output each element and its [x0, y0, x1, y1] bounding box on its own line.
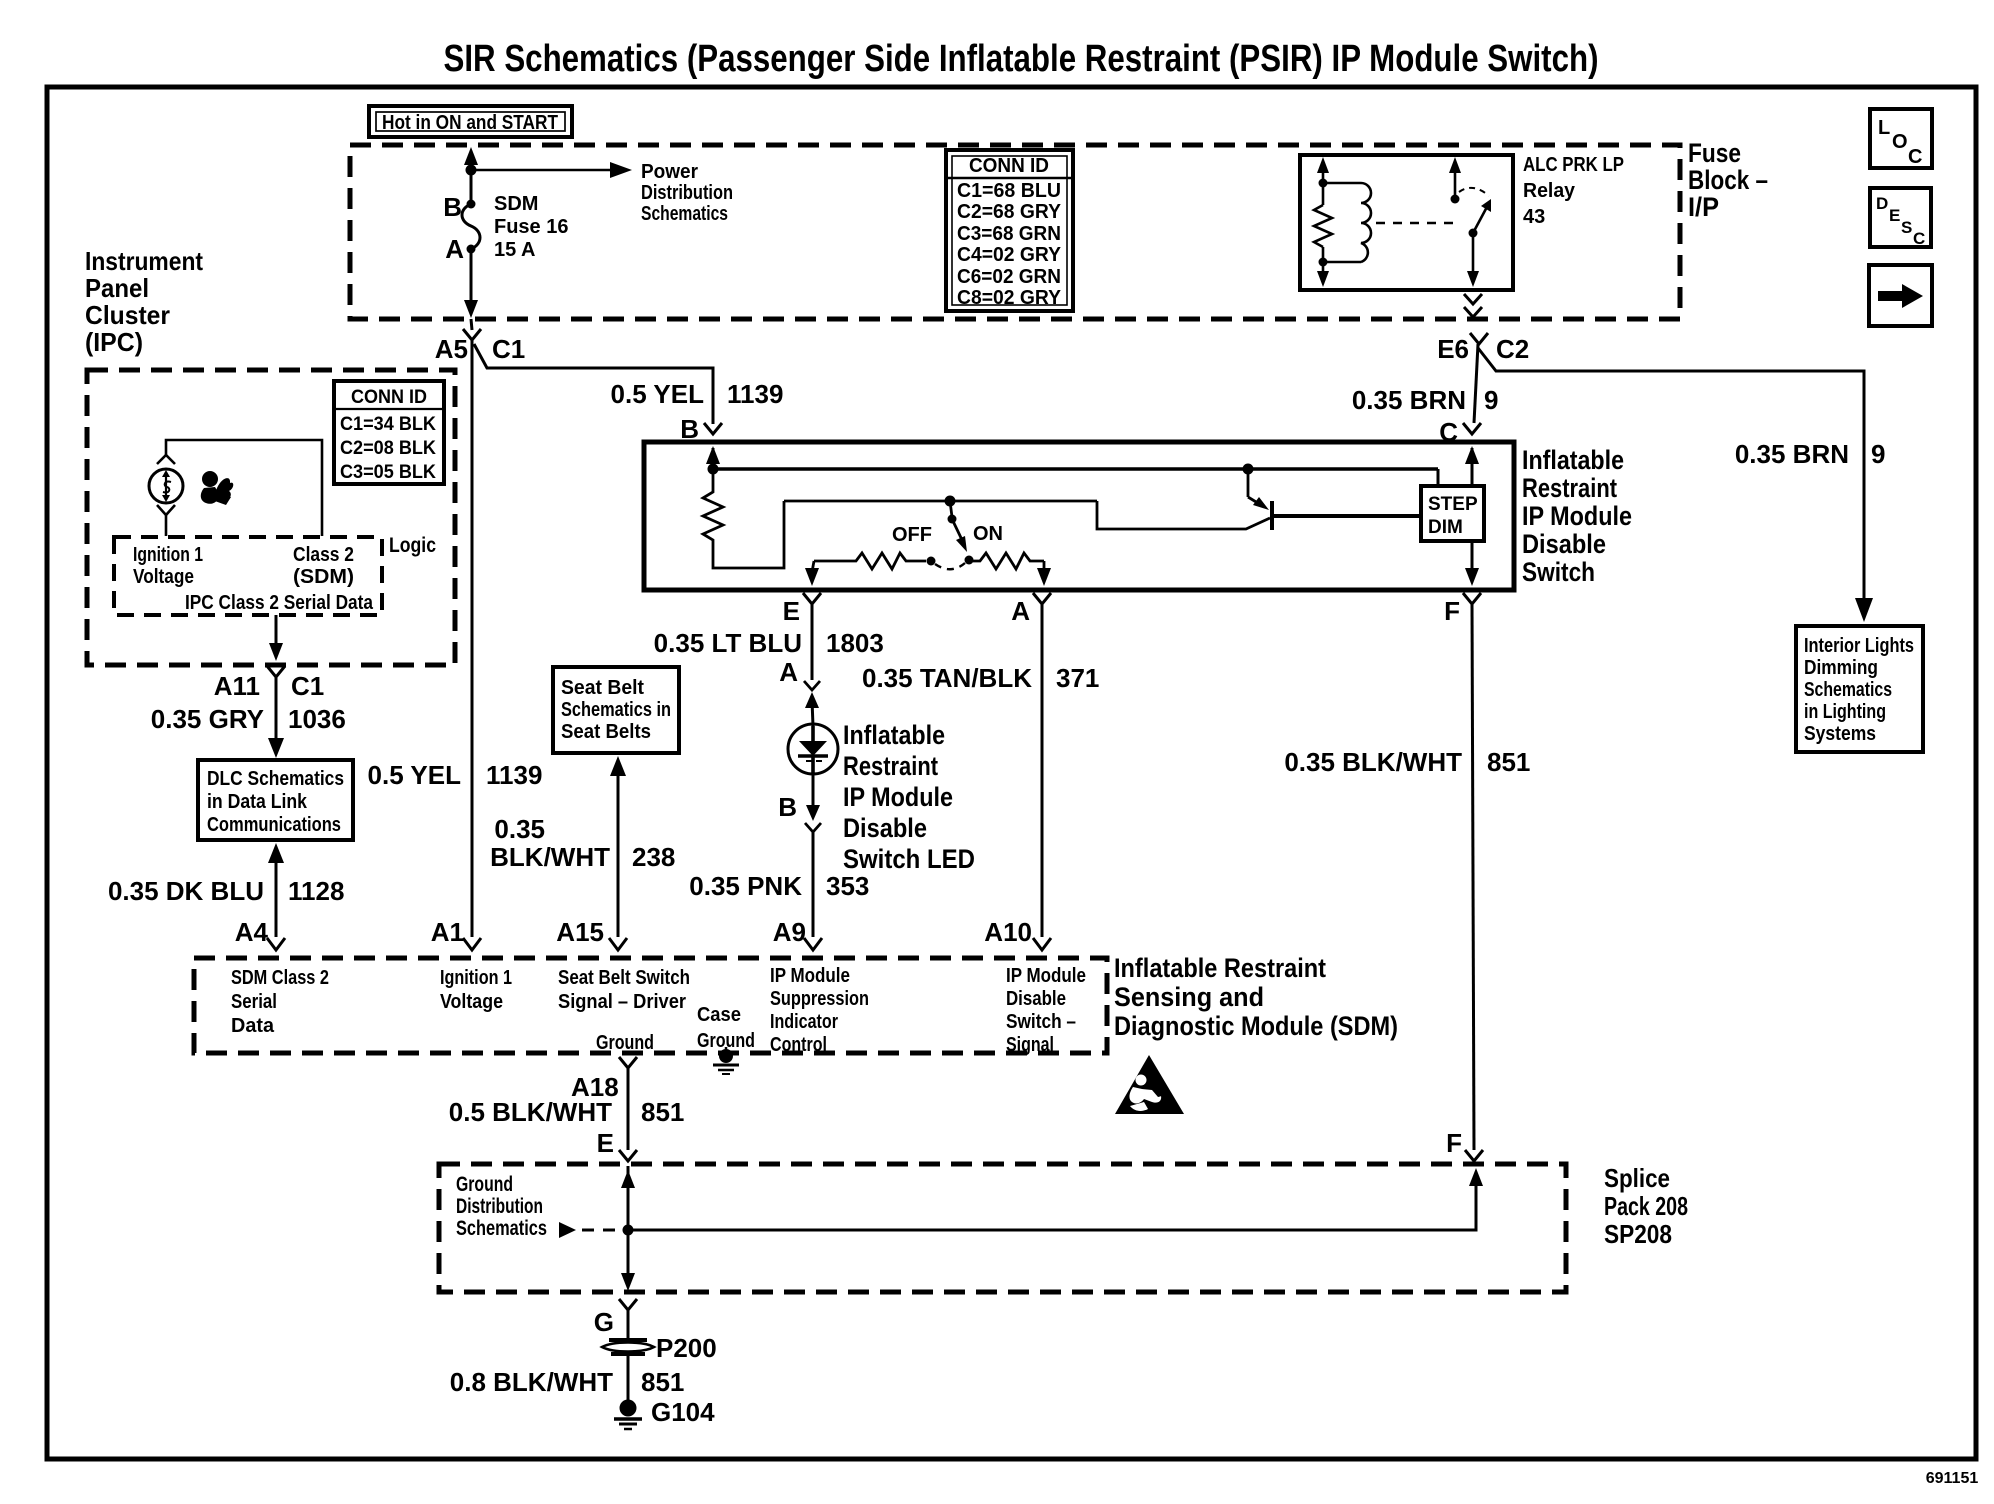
svg-text:0.35 BRN: 0.35 BRN — [1735, 439, 1849, 469]
wire power distribution branch — [471, 169, 614, 172]
arrow down LED cathode — [806, 805, 820, 821]
wire top rail to STEP DIM — [1437, 469, 1440, 486]
svg-text:0.35 GRY: 0.35 GRY — [151, 704, 264, 734]
svg-text:C3=68 GRN: C3=68 GRN — [957, 223, 1061, 245]
svg-text:0.5 BLK/WHT: 0.5 BLK/WHT — [449, 1097, 612, 1127]
svg-text:Instrument: Instrument — [85, 246, 203, 276]
svg-text:0.35 LT BLU: 0.35 LT BLU — [654, 628, 802, 658]
inductor relay coil winding — [1323, 183, 1371, 262]
svg-text:B: B — [778, 792, 797, 822]
label 0.35 LT BLU circuit 1803 — [654, 628, 884, 658]
dashed travel arc — [1459, 188, 1489, 196]
svg-text:STEP: STEP — [1428, 494, 1478, 515]
label IP Module Suppression Indicator Control — [770, 965, 869, 1056]
wire 0.35 BLK/WHT 851 — [1472, 604, 1474, 1150]
svg-text:353: 353 — [826, 871, 869, 901]
arrow down splice to ground — [621, 1273, 635, 1291]
wire dashed to splice junction — [582, 1229, 622, 1232]
svg-text:Restraint: Restraint — [843, 751, 938, 781]
svg-text:0.35 PNK: 0.35 PNK — [689, 871, 802, 901]
svg-text:Inflatable: Inflatable — [1522, 445, 1624, 475]
svg-text:Ignition 1: Ignition 1 — [440, 967, 512, 989]
svg-text:Ground: Ground — [456, 1173, 513, 1196]
label 0.5 YEL circuit 1139 (lower) — [368, 760, 543, 790]
svg-text:C2=68 GRY: C2=68 GRY — [957, 201, 1062, 223]
svg-text:C1=34 BLK: C1=34 BLK — [340, 414, 436, 435]
IPC dashed box — [87, 370, 455, 665]
svg-text:0.35: 0.35 — [494, 814, 545, 844]
svg-text:E: E — [597, 1128, 614, 1158]
LED D1 Inflatable Restraint IP Module Disable Switch LED — [788, 724, 838, 774]
label 0.35 TAN/BLK circuit 371 — [862, 663, 1099, 693]
wire module top rail — [713, 467, 1438, 471]
Hot in ON and START box — [369, 106, 572, 137]
svg-text:851: 851 — [641, 1367, 684, 1397]
svg-text:Schematics in: Schematics in — [561, 699, 671, 721]
svg-text:DIM: DIM — [1428, 517, 1463, 538]
indicator lamp symbol — [149, 469, 183, 503]
connector chevron splice pack F — [1465, 1150, 1483, 1161]
warning triangle airbag icon — [1115, 1055, 1184, 1114]
connector chevron at module pin C — [1463, 423, 1481, 434]
svg-text:A9: A9 — [773, 917, 806, 947]
label SDM Class 2 Serial Data — [231, 967, 329, 1037]
label Instrument Panel Cluster (IPC) — [85, 246, 203, 357]
svg-text:Fuse: Fuse — [1688, 138, 1741, 168]
svg-text:CONN ID: CONN ID — [969, 155, 1049, 177]
svg-text:Seat Belt Switch: Seat Belt Switch — [558, 967, 690, 989]
wire module C internal — [1471, 448, 1474, 486]
connector caret above lamp — [157, 455, 175, 464]
svg-text:SP208: SP208 — [1604, 1219, 1672, 1249]
svg-text:Ignition 1: Ignition 1 — [133, 544, 203, 566]
connector chevron SDM pin A1 — [463, 938, 481, 950]
arrow up inside module at C — [1465, 446, 1479, 464]
svg-text:A: A — [1011, 596, 1030, 626]
svg-text:C: C — [1913, 229, 1925, 248]
svg-text:Cluster: Cluster — [85, 300, 170, 330]
connector chevron LED pin A — [804, 681, 820, 690]
wire 0.35 TAN/BLK 371 — [1041, 604, 1044, 937]
svg-text:Splice: Splice — [1604, 1163, 1670, 1193]
label Splice Pack 208 SP208 — [1604, 1163, 1688, 1249]
arrow ground distribution pointer — [559, 1222, 576, 1238]
svg-text:9: 9 — [1484, 385, 1498, 415]
wire lamp feed — [166, 440, 322, 536]
connector chevron SDM ground A18 — [619, 1057, 637, 1068]
svg-text:1803: 1803 — [826, 628, 884, 658]
connector P200 pass-through — [602, 1340, 654, 1354]
svg-text:Inflatable: Inflatable — [843, 720, 945, 750]
wire fuse output down — [470, 249, 473, 303]
svg-text:G104: G104 — [651, 1397, 715, 1427]
label 0.35 BLK/WHT circuit 238 — [490, 814, 675, 872]
svg-text:Voltage: Voltage — [133, 566, 194, 588]
svg-text:BLK/WHT: BLK/WHT — [490, 842, 610, 872]
svg-text:(SDM): (SDM) — [293, 566, 354, 588]
wire switch rail — [784, 500, 1097, 503]
label Ground Distribution Schematics — [456, 1173, 547, 1240]
svg-text:Block –: Block – — [1688, 165, 1768, 195]
svg-text:Seat Belt: Seat Belt — [561, 677, 644, 699]
svg-text:IP Module: IP Module — [1522, 501, 1632, 531]
label 0.35 PNK circuit 353 — [689, 871, 869, 901]
svg-text:A11: A11 — [214, 671, 260, 701]
svg-text:0.35 DK BLU: 0.35 DK BLU — [108, 876, 264, 906]
label Power Distribution Schematics — [641, 161, 733, 225]
switch S1 Inflatable Restraint IP Module Disable Switch box — [644, 442, 1514, 590]
wire 0.35 PNK 353 — [812, 832, 815, 937]
svg-text:0.8 BLK/WHT: 0.8 BLK/WHT — [450, 1367, 613, 1397]
svg-text:851: 851 — [641, 1097, 684, 1127]
connector chevron SDM pin A4 — [267, 938, 285, 950]
svg-text:in Data Link: in Data Link — [207, 791, 308, 813]
svg-text:0.35 BLK/WHT: 0.35 BLK/WHT — [1284, 747, 1462, 777]
svg-text:0.35 BRN: 0.35 BRN — [1352, 385, 1466, 415]
label SDM Fuse 16 15 A — [494, 193, 568, 261]
SDM dashed box — [194, 958, 1107, 1053]
relay coil left pin wire — [1322, 161, 1325, 205]
wire ignition feed vertical (fuse 16 branch) — [470, 163, 473, 205]
svg-text:Serial: Serial — [231, 991, 277, 1013]
svg-text:G: G — [594, 1307, 614, 1337]
svg-text:A4: A4 — [235, 917, 269, 947]
relay movable arm — [1473, 205, 1488, 233]
label 0.5 BLK/WHT circuit 851 — [449, 1097, 685, 1127]
svg-text:IPC Class 2 Serial Data: IPC Class 2 Serial Data — [185, 592, 374, 614]
relay fixed contact wire — [1454, 161, 1457, 196]
node junction at power distribution tap — [466, 165, 477, 176]
wire OFF leg down to E — [812, 561, 814, 572]
svg-text:IP Module: IP Module — [1006, 965, 1086, 987]
arrow down relay pin bottom — [1317, 271, 1329, 287]
svg-text:DLC Schematics: DLC Schematics — [207, 768, 344, 790]
svg-text:Switch LED: Switch LED — [843, 844, 975, 874]
switch movable arm — [952, 519, 963, 542]
svg-text:ON: ON — [973, 523, 1003, 545]
wire G to P200 — [627, 1310, 630, 1341]
wire 0.8 BLK/WHT 851 — [627, 1356, 630, 1400]
arrow up LED anode — [805, 692, 819, 708]
arrow up inside splice at E — [621, 1170, 635, 1188]
connector double chevron below relay — [1464, 294, 1482, 317]
svg-text:OFF: OFF — [892, 524, 932, 546]
connector C2 chevron at E6 — [1470, 333, 1488, 344]
wire 0.5 BLK/WHT 851 — [627, 1068, 630, 1150]
svg-text:Inflatable Restraint: Inflatable Restraint — [1114, 953, 1326, 983]
label 0.35 BRN circuit 9 (right) — [1735, 439, 1886, 469]
Seat Belt Schematics reference box — [553, 667, 679, 753]
svg-text:E: E — [783, 596, 800, 626]
svg-text:Schematics: Schematics — [641, 203, 728, 225]
svg-text:Distribution: Distribution — [641, 182, 733, 204]
connector chevron module pin A — [1033, 593, 1051, 604]
connector chevron LED pin B — [805, 823, 821, 832]
connector chevron below lamp — [157, 505, 175, 515]
arrow right to power distribution schematics — [610, 162, 632, 178]
transistor Q1 — [1248, 469, 1421, 530]
wire 0.35 BLK/WHT 238 — [617, 770, 620, 937]
wire 0.35 BRN 9 down to module C — [1474, 344, 1478, 423]
arrow up into seat belt box — [610, 756, 626, 776]
svg-text:Panel: Panel — [85, 273, 149, 303]
svg-text:Switch: Switch — [1522, 557, 1595, 587]
svg-text:851: 851 — [1487, 747, 1530, 777]
node switch pivot — [948, 515, 957, 524]
svg-text:C6=02 GRN: C6=02 GRN — [957, 266, 1061, 288]
svg-text:C2=08 BLK: C2=08 BLK — [340, 438, 436, 459]
label ALC PRK LP Relay 43 — [1523, 154, 1624, 228]
connector chevron G — [619, 1299, 637, 1310]
fuse F16 SDM Fuse 16 15A — [462, 200, 480, 254]
svg-text:1139: 1139 — [727, 379, 783, 409]
svg-text:A10: A10 — [984, 917, 1032, 947]
label Ignition 1 Voltage (IPC) — [133, 544, 203, 588]
label IP Module Disable Switch - Signal — [1006, 965, 1086, 1056]
node relay fixed contact — [1451, 195, 1460, 204]
svg-text:Schematics: Schematics — [456, 1217, 547, 1240]
wire stub fuse A to connector — [471, 319, 472, 330]
svg-text:O: O — [1892, 131, 1908, 153]
arrow up into DLC box bottom — [268, 843, 284, 863]
svg-text:371: 371 — [1056, 663, 1099, 693]
label 0.35 BLK/WHT circuit 851 — [1284, 747, 1530, 777]
svg-text:C1=68 BLU: C1=68 BLU — [957, 180, 1061, 202]
svg-text:C1: C1 — [291, 671, 324, 701]
label Seat Belt Switch Signal - Driver — [558, 967, 690, 1013]
label Inflatable Restraint Sensing and Diagnostic Module (SDM) — [1114, 953, 1398, 1041]
wire ON leg down to A — [1043, 561, 1046, 572]
svg-text:Interior Lights: Interior Lights — [1804, 635, 1914, 657]
svg-text:I/P: I/P — [1688, 192, 1719, 222]
connector chevron module pin F — [1463, 593, 1481, 604]
IPC logic dashed box — [114, 537, 382, 615]
switch common stub — [950, 501, 952, 517]
arrow legend box — [1869, 265, 1932, 326]
svg-text:Dimming: Dimming — [1804, 657, 1878, 679]
wire 0.35 GRY 1036 — [275, 677, 278, 741]
node splice junction — [623, 1225, 634, 1236]
svg-text:IP Module: IP Module — [770, 965, 850, 987]
airbag indicator icon — [201, 471, 233, 505]
svg-text:1139: 1139 — [486, 760, 542, 790]
svg-text:0.5 YEL: 0.5 YEL — [611, 379, 705, 409]
svg-text:F: F — [1444, 596, 1460, 626]
svg-text:238: 238 — [632, 842, 675, 872]
svg-text:CONN ID: CONN ID — [351, 387, 427, 408]
node module top rail junction — [708, 464, 719, 475]
arrow down at module F exit — [1465, 568, 1479, 586]
label Class 2 (SDM) — [293, 544, 354, 588]
svg-text:1036: 1036 — [288, 704, 346, 734]
svg-text:Ground: Ground — [596, 1032, 654, 1054]
node relay arm pivot — [1469, 229, 1478, 238]
svg-text:Signal: Signal — [1006, 1034, 1054, 1056]
arrow up at fuse block top edge — [464, 147, 478, 165]
CONN ID table (IPC) — [334, 381, 444, 484]
LOC legend box — [1870, 109, 1932, 168]
connector chevron module pin E — [803, 593, 821, 604]
svg-text:Hot in ON and START: Hot in ON and START — [382, 112, 558, 134]
arrow up relay contact pin — [1449, 157, 1461, 173]
svg-text:Logic: Logic — [389, 534, 436, 557]
svg-text:L: L — [1878, 117, 1890, 139]
arrow down into DLC box — [268, 738, 284, 758]
svg-text:C: C — [1908, 146, 1922, 168]
svg-text:Signal – Driver: Signal – Driver — [558, 991, 686, 1013]
wire 0.5 YEL 1139 vertical to SDM A1 — [471, 340, 474, 937]
label Inflatable Restraint IP Module Disable Switch LED — [843, 720, 975, 874]
label 0.35 BRN circuit 9 (left) — [1352, 385, 1499, 415]
connector chevron at module pin B — [704, 423, 722, 434]
wire IPC serial data out — [275, 615, 278, 646]
svg-text:(IPC): (IPC) — [85, 327, 143, 357]
resistor relay internal — [1314, 205, 1332, 247]
relay K43 ALC PRK LP Relay box — [1300, 155, 1513, 290]
connector C1 chevron at A11 — [267, 666, 285, 677]
node OFF contact — [927, 557, 936, 566]
svg-text:Relay: Relay — [1523, 180, 1576, 202]
svg-text:Disable: Disable — [1006, 988, 1066, 1010]
svg-text:in Lighting: in Lighting — [1804, 701, 1886, 723]
wire splice E internal — [627, 1166, 630, 1278]
svg-text:F: F — [1446, 1128, 1462, 1158]
label 0.5 YEL circuit 1139 (upper) — [611, 379, 784, 409]
svg-text:Indicator: Indicator — [770, 1011, 838, 1033]
svg-text:A: A — [779, 657, 798, 687]
node switch common junction — [945, 496, 956, 507]
node relay coil bottom — [1319, 258, 1328, 267]
svg-text:Pack 208: Pack 208 — [1604, 1191, 1688, 1221]
arrow down at module A exit — [1037, 568, 1051, 586]
svg-text:9: 9 — [1871, 439, 1885, 469]
svg-text:SDM: SDM — [494, 193, 538, 215]
svg-text:Fuse 16: Fuse 16 — [494, 216, 568, 238]
svg-text:1128: 1128 — [288, 876, 344, 906]
arrow up inside splice at F — [1469, 1168, 1483, 1186]
wire 0.35 LT BLU 1803 — [811, 604, 814, 680]
svg-text:Seat Belts: Seat Belts — [561, 721, 651, 743]
connector C1 chevron at A5 — [463, 329, 481, 340]
arrow up inside module at B — [706, 446, 720, 464]
wire 0.35 BRN 9 branch to interior lights — [1478, 348, 1864, 600]
dashed contact arc — [935, 563, 965, 569]
DESC legend box — [1870, 188, 1931, 248]
wire 0.5 YEL branch to module pin B — [474, 344, 713, 424]
svg-text:Systems: Systems — [1804, 723, 1876, 745]
CONN ID table (fuse block) — [946, 150, 1073, 311]
connector chevron SDM pin A9 — [804, 938, 822, 950]
svg-text:E6: E6 — [1437, 334, 1469, 364]
svg-text:B: B — [680, 414, 699, 444]
svg-text:C4=02 GRY: C4=02 GRY — [957, 244, 1062, 266]
wire transistor feed step — [1097, 501, 1270, 529]
svg-text:D: D — [1876, 194, 1888, 213]
connector chevron splice pack E — [619, 1150, 637, 1161]
wire dashed actuation link — [1376, 222, 1460, 225]
label Case Ground — [697, 1004, 755, 1052]
svg-text:Disable: Disable — [843, 813, 927, 843]
resistor module pull-up — [703, 469, 784, 568]
STEP DIM box — [1421, 486, 1484, 541]
node collector junction on top rail — [1243, 464, 1254, 475]
label Inflatable Restraint IP Module Disable Switch — [1522, 445, 1632, 587]
svg-text:Class 2: Class 2 — [293, 544, 354, 566]
wire lamp to logic — [165, 515, 168, 536]
DLC Schematics reference box — [198, 760, 353, 840]
arrow down at fuse block bottom edge — [464, 300, 478, 318]
svg-text:Disable: Disable — [1522, 529, 1606, 559]
arrow down into interior lights box — [1855, 598, 1873, 622]
svg-text:A: A — [445, 234, 464, 264]
svg-text:ALC PRK LP: ALC PRK LP — [1523, 154, 1624, 176]
svg-text:0.35 TAN/BLK: 0.35 TAN/BLK — [862, 663, 1032, 693]
label Fuse Block - I/P — [1688, 138, 1768, 222]
svg-text:691151: 691151 — [1926, 1470, 1979, 1487]
wire 0.35 DK BLU 1128 — [275, 858, 278, 937]
wire LED cathode down — [812, 774, 815, 806]
arrow down at module E exit — [805, 568, 819, 586]
svg-text:C1: C1 — [492, 334, 525, 364]
label 0.35 DK BLU circuit 1128 — [108, 876, 344, 906]
node ON contact — [965, 556, 974, 565]
svg-text:C8=02 GRY: C8=02 GRY — [957, 287, 1062, 309]
svg-text:E: E — [1889, 206, 1900, 225]
resistor OFF side — [814, 553, 926, 569]
svg-text:Data: Data — [231, 1015, 275, 1037]
wire relay output down — [1472, 233, 1475, 283]
ground case ground symbol — [713, 1047, 739, 1074]
label 0.35 GRY circuit 1036 — [151, 704, 346, 734]
arrow down at IPC box bottom — [269, 643, 283, 661]
svg-text:SDM Class 2: SDM Class 2 — [231, 967, 329, 989]
svg-text:Communications: Communications — [207, 814, 341, 836]
arrow switch arm tip — [956, 536, 967, 552]
Interior Lights Dimming reference box — [1796, 626, 1923, 752]
svg-text:Case: Case — [697, 1004, 741, 1026]
ground distribution dashed box — [439, 1164, 1566, 1292]
svg-text:43: 43 — [1523, 206, 1545, 228]
svg-text:Sensing and: Sensing and — [1114, 982, 1264, 1012]
wire STEP DIM to F exit — [1471, 541, 1474, 572]
svg-text:IP Module: IP Module — [843, 782, 953, 812]
svg-text:C2: C2 — [1496, 334, 1529, 364]
svg-text:Switch –: Switch – — [1006, 1011, 1076, 1033]
svg-text:A5: A5 — [435, 334, 468, 364]
connector chevron SDM pin A10 — [1033, 938, 1051, 950]
connector chevron SDM pin A15 — [609, 938, 627, 950]
svg-text:Power: Power — [641, 161, 698, 183]
arrow up relay pin top — [1317, 157, 1329, 173]
svg-text:Distribution: Distribution — [456, 1195, 543, 1218]
wire splice bus to F — [628, 1184, 1476, 1230]
Fuse Block - I/P dashed box — [350, 145, 1680, 319]
ground G104 — [614, 1400, 642, 1430]
svg-text:Schematics: Schematics — [1804, 679, 1892, 701]
svg-text:SIR Schematics (Passenger Side: SIR Schematics (Passenger Side Inflatabl… — [444, 38, 1599, 80]
svg-text:A1: A1 — [431, 917, 464, 947]
node relay coil top — [1319, 179, 1328, 188]
svg-text:Control: Control — [770, 1034, 827, 1056]
resistor ON side — [969, 553, 1044, 569]
svg-text:Voltage: Voltage — [440, 991, 503, 1013]
wire module B internal — [712, 448, 715, 469]
wire into LED — [812, 700, 813, 726]
svg-text:C3=05 BLK: C3=05 BLK — [340, 462, 436, 483]
svg-text:Diagnostic Module (SDM): Diagnostic Module (SDM) — [1114, 1011, 1398, 1041]
svg-text:Restraint: Restraint — [1522, 473, 1617, 503]
svg-text:0.5 YEL: 0.5 YEL — [368, 760, 462, 790]
